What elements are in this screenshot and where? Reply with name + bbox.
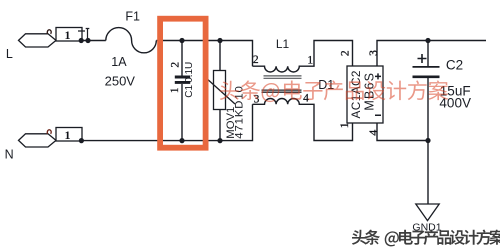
svg-text:1: 1	[307, 54, 313, 66]
svg-text:C2: C2	[446, 57, 463, 72]
svg-text:2: 2	[339, 50, 351, 56]
svg-text:L1: L1	[276, 37, 290, 51]
svg-text:3: 3	[368, 50, 380, 56]
svg-text:2: 2	[253, 54, 259, 66]
svg-text:F1: F1	[125, 10, 140, 24]
svg-text:N: N	[5, 147, 14, 161]
svg-text:2: 2	[170, 62, 182, 68]
svg-text:L: L	[6, 47, 13, 61]
svg-text:1: 1	[169, 87, 181, 93]
svg-text:0.1U: 0.1U	[184, 62, 195, 83]
svg-text:1: 1	[65, 28, 71, 42]
svg-text:1A: 1A	[111, 55, 127, 69]
svg-text:4: 4	[366, 130, 380, 136]
svg-text:1: 1	[337, 122, 351, 128]
svg-text:250V: 250V	[105, 74, 136, 89]
svg-text:C1: C1	[184, 84, 195, 97]
svg-text:1: 1	[65, 128, 71, 142]
